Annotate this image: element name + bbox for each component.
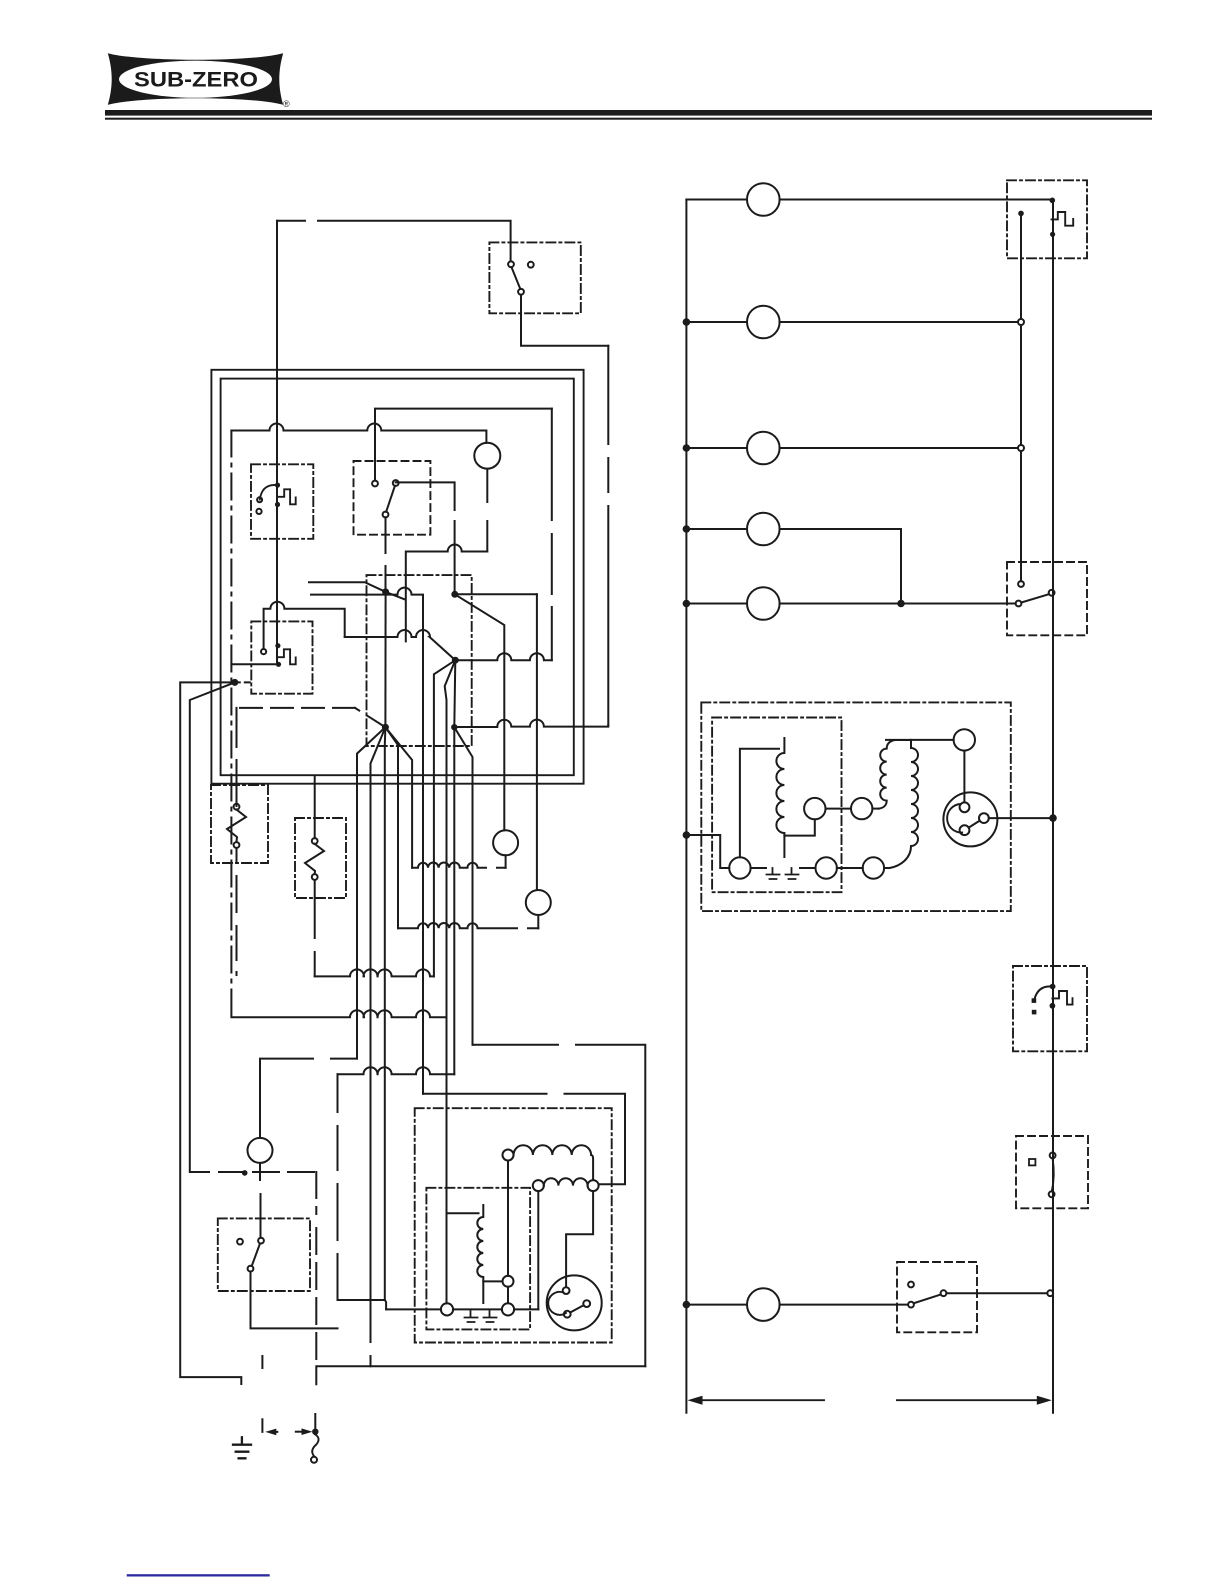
wire FP3 northwest dashed <box>237 708 386 727</box>
relay coil (right) <box>776 738 784 836</box>
harness box <box>367 575 472 746</box>
switch SWR2 contacts <box>908 1282 914 1288</box>
switch SWR1 box <box>1007 562 1087 635</box>
compressor box (right) outer <box>701 702 1011 911</box>
wire FP3 fan V412 <box>385 727 412 868</box>
svg-text:®: ® <box>283 99 290 109</box>
run winding left drop <box>537 1191 539 1309</box>
wire FP4 diagonal to C2 <box>455 594 505 830</box>
run winding coil (left) <box>533 1180 544 1191</box>
switch SWR1 contacts <box>1018 581 1024 587</box>
switch SW1 contacts <box>508 261 514 267</box>
motor top contact <box>954 729 975 750</box>
node FP3 <box>382 724 389 731</box>
motor M2 circle <box>943 792 997 846</box>
timer T1 cam glyph <box>278 489 296 504</box>
svg-text:SUB-ZERO: SUB-ZERO <box>134 68 258 92</box>
wire top feed <box>277 221 511 261</box>
row 5 wire <box>686 603 747 605</box>
outer cabinet box <box>211 370 583 784</box>
timer T2 contacts and glyph <box>261 649 266 654</box>
wire L2 stem <box>505 855 507 868</box>
bus wire y=430.5 with hops <box>231 424 486 443</box>
wire main vertical x=277 <box>276 221 278 665</box>
winding common contact <box>588 1180 599 1191</box>
bottom row wire (right) <box>751 867 890 869</box>
wire FP1 tap diagonal <box>386 592 405 600</box>
dimension line <box>701 1399 1038 1401</box>
relay left leg <box>446 1213 448 1303</box>
lamp R4 <box>747 513 780 546</box>
motor M1 arc <box>548 1292 566 1315</box>
contact circle B <box>851 798 872 819</box>
row 3 wire <box>686 447 747 449</box>
stat contacts <box>1029 1159 1035 1165</box>
wire W6 y=976.4 with hops <box>315 969 434 976</box>
switch SW2 contacts <box>237 1239 243 1245</box>
Sub-Zero logo <box>108 53 290 109</box>
wire A-B <box>826 808 852 810</box>
wire W4 y=867.8 with hops <box>412 863 506 868</box>
overload OL2 <box>767 868 799 879</box>
row 6 wire <box>686 1304 747 1306</box>
wire y=1017.2 relay feed with hops <box>231 1010 446 1017</box>
timer cam glyph <box>1050 198 1056 204</box>
node FP1 <box>382 588 389 595</box>
wire right drop x=608 (dashed) <box>607 346 609 725</box>
wire R1 lower stub dashed <box>236 848 238 975</box>
node FP-B <box>452 657 459 664</box>
lamp R2 <box>747 306 780 339</box>
lamp L3 <box>526 890 551 915</box>
run coil (right, vertical humps east) <box>890 740 919 868</box>
footer blue line <box>127 1574 270 1576</box>
relay coil tail to contact <box>483 1281 502 1303</box>
wire y=551.5 lamp loop <box>406 545 487 642</box>
wire FP3 fan B3 <box>385 727 386 1309</box>
timer glyph lower <box>1034 986 1052 999</box>
left bus <box>685 200 687 1305</box>
wire y=726.6 east to SW1 drop <box>454 720 608 727</box>
wire FP1-FP3 <box>384 592 386 727</box>
wire W1 <box>309 582 386 592</box>
timer T1 box <box>251 464 313 539</box>
timer internal line <box>1018 211 1024 217</box>
contact circle upper <box>503 1276 514 1287</box>
row 4 wire <box>686 528 747 530</box>
defrost timer box (top right) <box>1007 180 1087 258</box>
node plug junction <box>312 1429 318 1435</box>
lamp L2 <box>493 830 518 855</box>
wire bus entry <box>686 835 729 868</box>
wire W2 east run to compressor <box>423 1094 625 1185</box>
contact circle mid <box>502 1303 514 1315</box>
motor M2 blade <box>969 821 980 828</box>
wire M2 drop <box>434 660 455 976</box>
node bus dots <box>683 318 691 326</box>
wire W8 y=1074.2 with hops <box>338 1067 455 1074</box>
relay coil tail <box>784 820 814 857</box>
wire bottom return y=1366.3 <box>315 1366 645 1428</box>
wire C3 drop to L3 <box>536 594 538 890</box>
resistor R1 box <box>211 785 268 863</box>
lamp L1 <box>474 443 500 469</box>
ground symbol <box>233 1437 251 1458</box>
wire M3 drop to relay <box>445 660 456 1213</box>
wire C4 drop x=551.8 (dashed) <box>551 409 553 661</box>
switch TC box (thermostat) <box>354 461 431 535</box>
resistor R2 box <box>295 818 346 898</box>
wire W2 with hop, to V_b drop <box>311 588 423 1094</box>
relay box (right) inner <box>712 718 841 893</box>
wire TC blade drop <box>385 517 387 592</box>
wire TC-A riser <box>375 409 552 481</box>
wire B east with hops <box>455 653 552 660</box>
wire B to coil2 <box>872 808 878 810</box>
wire L4 stem dashed <box>259 1163 262 1238</box>
wire motor to right bus <box>989 817 1053 819</box>
wire T2 riser loop <box>264 602 345 649</box>
wire left second drop <box>190 682 245 1172</box>
contact circle A <box>804 798 825 819</box>
wire L3 stem <box>537 915 539 928</box>
overload OL1 <box>465 1311 497 1322</box>
bottom row wire <box>386 1308 538 1310</box>
contact circle left <box>441 1303 453 1315</box>
lamp R3 <box>747 432 780 465</box>
resistor R2 element <box>314 777 316 838</box>
switch TC contacts <box>372 481 378 487</box>
motor M1 circle <box>547 1275 602 1330</box>
motor M1 blade <box>570 1305 583 1312</box>
wire M6 jog diagonal <box>454 727 472 1045</box>
wire resistor R1 feed <box>236 708 238 806</box>
timer T1 cam arc <box>260 485 278 500</box>
wire FP3 fan B4 <box>385 727 398 928</box>
top wire to motor <box>886 739 954 741</box>
wire lamp drop (dashed) <box>486 469 488 552</box>
defrost stat box <box>1016 1136 1088 1208</box>
start coil (right, vertical humps west) <box>879 740 911 809</box>
relay box (left) inner <box>426 1188 530 1330</box>
wire y=1044.8 east <box>473 1045 646 1367</box>
wire y=1058.6 to lamp L4 <box>260 1059 357 1138</box>
wire M4 drop <box>454 660 455 1074</box>
right bus <box>1052 200 1054 1413</box>
contact circle C <box>816 857 837 878</box>
contact circle D <box>863 857 884 878</box>
wire feed dash-dot x=231.4 <box>230 431 232 1018</box>
wire R2 drop <box>314 880 316 976</box>
lamp L4 <box>248 1138 273 1163</box>
header rules <box>105 110 1152 120</box>
timer T2 box <box>251 621 312 693</box>
power cord squiggle <box>312 1435 318 1457</box>
wire W5 y=928.3 with hops <box>398 923 538 928</box>
start winding coil (left) <box>503 1150 514 1161</box>
lamp R1 <box>747 183 780 216</box>
switch SW2 box (bottom left) <box>218 1218 310 1291</box>
compressor box (left) outer <box>415 1108 612 1342</box>
wire W3 with hops to FP-B <box>345 630 456 660</box>
lamp R5 <box>747 587 780 620</box>
row 1 wire <box>686 199 747 201</box>
wire x=337.5 drop dashed <box>338 1074 386 1300</box>
switch SW1 (freezer light switch) box <box>489 242 580 313</box>
relay contact circle left <box>729 857 750 878</box>
arrow left elbow <box>262 1356 277 1432</box>
node FP4 <box>451 591 458 598</box>
wire FP3 fan B2 <box>371 727 386 1366</box>
wire FP3 fan B1 <box>357 727 385 1058</box>
wire SW1 to right drop <box>521 295 608 346</box>
relay left leg <box>740 749 779 858</box>
wire left outer drop <box>180 682 241 1384</box>
wire TC-B to FP4 (dashed drop) <box>396 482 455 591</box>
row 2 wire <box>686 321 747 323</box>
node left tap <box>231 679 238 686</box>
defrost timer box (lower right) <box>1013 966 1087 1051</box>
wire SW2 out <box>251 1272 338 1329</box>
switch SWR2 box <box>897 1262 977 1332</box>
resistor R1 element <box>234 804 240 810</box>
node M4 junction <box>451 724 457 730</box>
arrow right <box>296 1431 302 1433</box>
relay coil hook <box>447 1212 479 1214</box>
wire FP4 east <box>455 593 537 595</box>
lamp R6 <box>747 1288 780 1321</box>
relay coil (left compressor) <box>477 1205 483 1281</box>
wire y=1172 east dashed to x=316 <box>253 1172 316 1366</box>
start winding drop <box>507 1161 509 1303</box>
motor M2 arc <box>947 804 962 833</box>
motor M1 top wire <box>566 1191 593 1287</box>
inner cabinet box <box>221 379 574 776</box>
